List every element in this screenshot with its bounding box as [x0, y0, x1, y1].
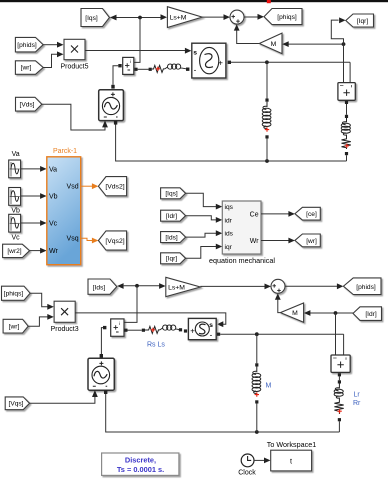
goto tag [phiqs] — [264, 9, 302, 25]
wire Ce to [ce] — [261, 213, 290, 215]
wire sum1 to [phiqs] — [244, 16, 259, 18]
wire [Iqs] to gain Ls+M — [117, 17, 162, 19]
svg-text:Vc: Vc — [12, 234, 21, 241]
svg-text:Vsq: Vsq — [67, 236, 79, 243]
svg-text:Ts = 0.0001 s.: Ts = 0.0001 s. — [117, 465, 164, 474]
wire Product3 to CVS2 s input — [75, 313, 226, 324]
svg-text:Clock: Clock — [238, 469, 256, 476]
goto tag [ce] — [295, 207, 320, 220]
sum1 — [230, 10, 244, 24]
bottom rail wire — [106, 394, 340, 432]
svg-text:iqs: iqs — [225, 204, 234, 211]
gain M (bottom, left-pointing) — [280, 303, 303, 322]
wire gain to sum2 — [200, 285, 265, 287]
svg-text:[Vqs]: [Vqs] — [8, 401, 23, 408]
wire clock to workspace — [254, 459, 265, 461]
node — [342, 42, 346, 46]
top window edge bar — [0, 0, 388, 2]
AC2 bottom right port — [104, 390, 107, 394]
wire M2 gain to sum2 bottom — [278, 299, 281, 313]
svg-text:[Iqs]: [Iqs] — [85, 15, 98, 22]
svg-text:Product3: Product3 — [51, 326, 79, 333]
controlled voltage source CVS1 — [192, 43, 226, 78]
goto tag [Ids] (flipped) — [88, 279, 117, 294]
orange wire Vsq to [Vqs2] — [81, 238, 93, 240]
from tag [Vds] — [16, 97, 42, 111]
wire M gain to sum1 bottom — [237, 26, 260, 44]
from tag [phids] — [15, 37, 43, 52]
gain Ls+M (top) — [167, 7, 202, 28]
CM2 right port and series branch — [124, 329, 127, 332]
svg-text:Vsd: Vsd — [67, 184, 79, 191]
svg-text:+: + — [190, 327, 195, 336]
arrow into gain — [161, 14, 168, 20]
inductor Ls (bottom) — [160, 325, 177, 330]
controlled voltage source CVS2 — [188, 318, 216, 339]
from tag [wr2] — [3, 244, 30, 257]
svg-text:Lr: Lr — [354, 392, 361, 399]
annotation Discrete Ts — [102, 453, 179, 475]
svg-text:s: s — [209, 322, 213, 329]
from tag [Idr] — [161, 210, 186, 221]
adder block (bottom) — [331, 355, 350, 372]
wire sum2 to [phids] — [285, 285, 338, 287]
svg-text:Rs Ls: Rs Ls — [147, 342, 165, 349]
wire junction down into adder left input — [343, 44, 345, 83]
gain Ls+M (bottom) — [166, 277, 201, 296]
svg-text:M: M — [292, 310, 298, 317]
wire [Vds] to AC1 — [42, 104, 105, 130]
svg-text:Vb: Vb — [49, 194, 58, 201]
sine source Va — [9, 160, 21, 178]
svg-text:ids: ids — [225, 231, 234, 238]
svg-text:Ls+M: Ls+M — [168, 284, 185, 291]
from tag [phiqs] (bottom left) — [2, 286, 31, 300]
svg-text:Product5: Product5 — [60, 63, 88, 70]
svg-text:i: i — [119, 321, 120, 326]
AC voltage source AC2 — [88, 358, 114, 390]
wire CM1 left port to AC1 top — [113, 66, 118, 85]
CM1 right port and series branch — [134, 68, 137, 71]
wire CVS1 + output to right — [231, 61, 350, 63]
from tag [Idr] (right, flipped) — [353, 307, 382, 321]
svg-text:[Vds2]: [Vds2] — [105, 184, 124, 191]
svg-text:[Iqr]: [Iqr] — [166, 256, 177, 263]
goto tag [wr] — [295, 234, 320, 247]
orange wire Vsd to [Vds2] — [81, 185, 94, 187]
svg-text:[wr2]: [wr2] — [7, 248, 21, 255]
resistor Rr (top, vertical zigzag) — [342, 136, 351, 149]
wire CVS2 output right — [220, 333, 343, 335]
from tag [Ids] — [161, 232, 186, 243]
svg-text:Ce: Ce — [250, 211, 259, 218]
arrow up into AC2 from [Vqs] — [92, 390, 98, 397]
mutual inductor M branch (bottom) — [256, 334, 258, 363]
svg-text:[Ids]: [Ids] — [165, 234, 177, 241]
resistor Rs (top) — [152, 65, 165, 72]
svg-text:[wr]: [wr] — [306, 238, 317, 245]
sine source Vb — [9, 188, 21, 206]
svg-text:Vc: Vc — [49, 221, 58, 228]
from tag [Iqr] — [161, 253, 186, 264]
wire [Idr] to M2 gain — [310, 312, 354, 314]
svg-text:idr: idr — [225, 217, 233, 224]
svg-text:[wr]: [wr] — [21, 65, 32, 72]
svg-text:M: M — [271, 41, 277, 48]
svg-text:Rr: Rr — [353, 400, 361, 407]
svg-text:Wr: Wr — [49, 248, 58, 255]
resistor Rr (bottom) — [334, 399, 343, 414]
sum2 — [271, 279, 285, 293]
svg-text:s: s — [193, 50, 197, 57]
port below adder — [345, 101, 348, 104]
svg-text:[Vds]: [Vds] — [19, 102, 34, 109]
current measurement CM2 — [111, 319, 124, 336]
svg-text:[Iqs]: [Iqs] — [165, 191, 177, 198]
svg-text:iqr: iqr — [225, 244, 233, 251]
wire to goto [Iqr] — [331, 20, 343, 44]
svg-text:Parck-1: Parck-1 — [53, 148, 77, 155]
from tag [wr] (bottom left) — [3, 319, 28, 333]
goto tag [phids] — [343, 278, 381, 295]
svg-text:M: M — [266, 383, 272, 390]
wire down into adder right input — [349, 62, 351, 82]
svg-text:[phids]: [phids] — [356, 284, 376, 291]
wire Va to park — [21, 168, 42, 170]
svg-text:Discrete,: Discrete, — [125, 455, 156, 464]
inductor Lr (bottom) — [334, 384, 343, 400]
wire down to top rail — [346, 155, 348, 161]
red cursor tick — [267, 0, 271, 3]
wire Product5 to CVS1 s input — [85, 50, 186, 52]
AC voltage source AC1 — [99, 90, 124, 121]
CM1 i output up to junction — [134, 18, 140, 63]
current measurement CM1 — [123, 57, 134, 74]
gain M (top, left-pointing) — [259, 33, 282, 54]
from tag [Vqs] — [5, 397, 29, 410]
wire gain to sum1 — [202, 16, 224, 18]
product Product3 — [54, 301, 75, 322]
svg-text:[ce]: [ce] — [306, 211, 317, 218]
from tag [Iqs] — [161, 188, 186, 199]
svg-text:Va: Va — [49, 166, 57, 173]
svg-text:[Ids]: [Ids] — [93, 284, 106, 291]
mutual inductor M branch (top) — [266, 62, 268, 98]
resistor Rs (bottom) — [145, 326, 160, 333]
wire [wr] to Product5 — [43, 54, 57, 67]
AC1 bottom right port — [114, 121, 117, 125]
wire CM2 left port down to AC2 — [101, 328, 103, 354]
svg-text:To Workspace1: To Workspace1 — [267, 440, 316, 449]
from tag [wr] top — [15, 61, 43, 75]
clock — [241, 454, 254, 467]
junction node — [138, 16, 142, 20]
svg-text:Vb: Vb — [11, 208, 20, 215]
goto tag [Iqs] (flipped) — [81, 9, 110, 27]
top rail wire — [116, 125, 347, 162]
svg-text:i: i — [130, 59, 131, 64]
arrow up into AC1 from [Vds] — [102, 120, 108, 127]
adder block (top) — [338, 83, 355, 101]
ports below adder2 — [338, 373, 341, 376]
svg-text:[phids]: [phids] — [17, 42, 37, 49]
subsystem equation mechanical — [222, 201, 261, 254]
wire Wr to [wr] — [261, 240, 290, 242]
inductor Lr (top, vertical coil) — [341, 118, 350, 136]
svg-text:t: t — [290, 456, 292, 465]
goto tag [Vds2] — [98, 177, 126, 196]
svg-text:+: + — [218, 59, 223, 68]
goto tag [Iqr] — [346, 14, 374, 27]
svg-text:[Idr]: [Idr] — [166, 213, 177, 220]
svg-text:[Idr]: [Idr] — [365, 311, 377, 318]
svg-text:Ls+M: Ls+M — [170, 15, 187, 22]
wire into M gain from junction — [288, 43, 344, 45]
svg-text:equation mechanical: equation mechanical — [209, 256, 275, 265]
svg-text:-: - — [210, 330, 213, 339]
wire [phids] to Product5 — [43, 44, 58, 46]
sine source Vc — [9, 214, 21, 232]
goto tag [Vqs2] — [98, 231, 126, 250]
svg-text:Va: Va — [12, 151, 20, 158]
svg-text:[wr]: [wr] — [9, 324, 20, 331]
svg-text:[Iqr]: [Iqr] — [357, 18, 369, 25]
svg-text:Wr: Wr — [250, 238, 259, 245]
inductor Ls (top) — [165, 64, 182, 69]
svg-text:[Vqs2]: [Vqs2] — [105, 238, 124, 245]
product Product5 — [64, 39, 85, 59]
svg-text:[phiqs]: [phiqs] — [4, 291, 24, 298]
arrow into [Iqs] — [110, 15, 117, 21]
svg-text:[phiqs]: [phiqs] — [277, 14, 297, 21]
red polarity mark — [345, 144, 349, 148]
svg-text:-: - — [194, 65, 197, 74]
CM2 i output to junction — [124, 286, 137, 323]
